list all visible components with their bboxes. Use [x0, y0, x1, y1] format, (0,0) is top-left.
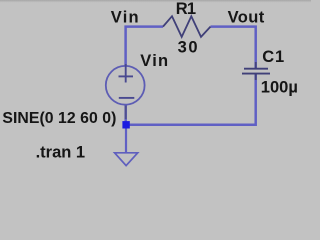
svg-text:100µ: 100µ [261, 78, 298, 96]
ground symbol [115, 153, 138, 166]
svg-text:30: 30 [178, 39, 200, 57]
voltage source V1 circle [106, 66, 145, 105]
wire Vout node: resistor to top-right corner down to capacitor [211, 27, 256, 69]
svg-text:Vin: Vin [111, 9, 140, 27]
svg-text:R1: R1 [176, 0, 196, 18]
svg-text:.tran 1: .tran 1 [36, 144, 86, 162]
resistor R1 [163, 16, 211, 37]
svg-text:Vin: Vin [140, 52, 169, 70]
voltage source top lead inside [125, 64, 127, 83]
junction node [122, 121, 129, 128]
capacitor C1 lead stubs [255, 62, 257, 68]
svg-text:C1: C1 [262, 48, 285, 66]
wire source bottom lead [124, 105, 127, 125]
wire Vin node: top-left corner to resistor [126, 27, 163, 66]
svg-text:SINE(0 12 60 0): SINE(0 12 60 0) [2, 110, 116, 127]
wire bottom net: capacitor bottom down and left to junction [126, 74, 256, 125]
capacitor C1 [242, 69, 270, 74]
wire ground lead [125, 125, 127, 153]
plus sign [119, 75, 134, 77]
svg-text:Vout: Vout [228, 8, 265, 26]
minus sign [119, 97, 135, 99]
